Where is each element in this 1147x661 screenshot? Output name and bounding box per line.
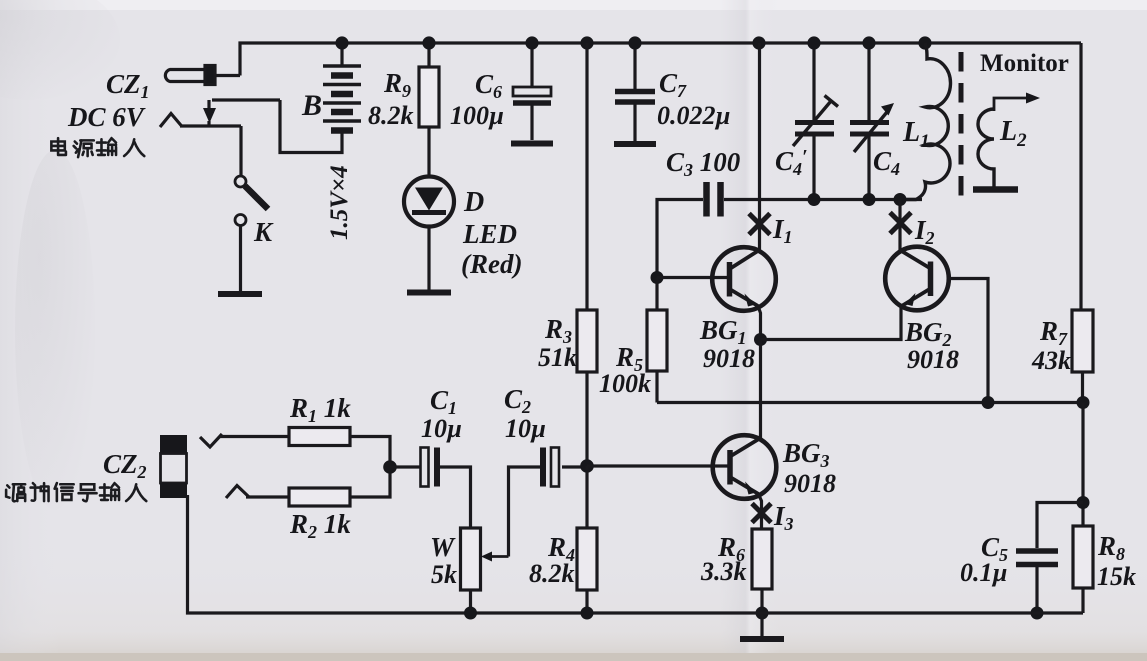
inductor L1: [900, 43, 950, 200]
wire: rail to C6: [530, 43, 533, 87]
junction: mix node: [383, 460, 397, 474]
ground (C6): [511, 141, 553, 147]
label I3: [773, 501, 794, 534]
wire: top supply rail: [240, 43, 1081, 76]
label BG1: [699, 315, 747, 348]
wire: mix node to C1: [390, 465, 420, 468]
wire: base node to BG1 base: [657, 276, 729, 279]
label 10u (C1): [421, 414, 462, 443]
svg-text:1.5V×4: 1.5V×4: [326, 165, 353, 240]
label DC 6V: [67, 102, 146, 132]
svg-text:8.2k: 8.2k: [529, 559, 575, 588]
wire: rail to C7: [633, 43, 636, 89]
label 0.022u: [657, 101, 730, 130]
variable capacitor C4a: [793, 96, 838, 200]
svg-text:15k: 15k: [1097, 562, 1136, 591]
wire: R9 to LED: [427, 127, 430, 177]
label C5: [981, 532, 1008, 565]
wire: base node to R5: [655, 278, 658, 311]
wire: R1 to mix node: [350, 437, 390, 468]
wire: C3 left plate to BG1 base node: [657, 200, 703, 273]
wire: bottom rail to ground: [760, 613, 763, 637]
resistor R5: [647, 310, 667, 371]
connector CZ2 ring contact: [226, 486, 249, 499]
battery B: [280, 43, 361, 153]
wire: rail to C4: [867, 43, 870, 122]
junction: rail at R3 line: [580, 36, 593, 49]
variable capacitor C4: [850, 103, 894, 200]
wire: tip contact to R1: [219, 435, 289, 438]
svg-text:3.3k: 3.3k: [700, 557, 747, 586]
label 调制信号输入 (modulation signal input): [6, 483, 146, 501]
junction: bottom rail at R4: [581, 607, 594, 620]
label 15k: [1097, 562, 1136, 591]
label R7: [1039, 316, 1068, 349]
label C6: [475, 69, 502, 102]
label 1.5V×4: [326, 165, 353, 240]
wire: switch to ground: [239, 226, 242, 293]
svg-text:Monitor: Monitor: [980, 50, 1069, 77]
label 8.2k (R4): [529, 559, 575, 588]
label 9018 (BG3): [784, 469, 836, 498]
wire: R7 to feedback line: [1081, 372, 1084, 403]
wire: BG3 emitter to R6: [759, 494, 762, 529]
wire: right rail from top: [1079, 43, 1082, 310]
svg-text:100µ: 100µ: [450, 101, 504, 130]
resistor R9: [419, 67, 439, 127]
capacitor C5: [1016, 551, 1058, 613]
wire: C2 to node: [562, 465, 587, 468]
junction: bottom rail at R6: [756, 607, 769, 620]
junction: rail at C4: [862, 36, 875, 49]
label K: [253, 217, 274, 247]
wire: node to C5: [1037, 503, 1083, 549]
svg-text:(Red): (Red): [461, 249, 522, 279]
wire: emitter tie line BG1-BG2: [761, 305, 902, 340]
svg-text:10µ: 10µ: [421, 414, 462, 443]
svg-text:R1 1k: R1 1k: [289, 393, 351, 426]
label L1: [902, 117, 930, 152]
wire: jack to switch K: [239, 126, 242, 176]
wire: R5 bottom to feedback line: [655, 371, 658, 403]
ground (L2): [973, 186, 1018, 193]
junction: rail at C6: [525, 36, 538, 49]
wire: R8 to bottom rail: [1081, 588, 1084, 613]
svg-text:LED: LED: [462, 219, 517, 249]
wire: BG2 base to feedback line: [948, 279, 989, 403]
wire: BG1 emitter to tie node: [758, 306, 761, 340]
svg-text:K: K: [253, 217, 274, 247]
junction: emitter tie node: [754, 333, 767, 346]
svg-text:0.1µ: 0.1µ: [960, 558, 1007, 587]
wire: tank to BG2 collector through I2: [898, 200, 901, 252]
svg-text:8.2k: 8.2k: [368, 101, 414, 130]
wire: ring contact to R2: [246, 495, 289, 498]
label R6: [717, 532, 745, 565]
label R5: [615, 342, 643, 375]
junction: rail at R9: [422, 36, 435, 49]
wire: battery negative return to jack contact: [280, 100, 342, 153]
label I1: [772, 214, 793, 247]
wire: rail to C4a: [812, 43, 815, 122]
wire: R6 to bottom rail: [760, 589, 763, 613]
junction: feedback line at R7: [1077, 396, 1090, 409]
wire: R4 to bottom rail: [585, 590, 588, 613]
svg-text:B: B: [301, 89, 322, 122]
label BG2: [904, 317, 952, 350]
svg-text:10µ: 10µ: [505, 414, 546, 443]
transistor BG3: [713, 435, 777, 499]
capacitor C7: [615, 92, 655, 142]
label I2: [914, 215, 935, 248]
antenna coupling dashed line: [959, 52, 964, 204]
resistor R8: [1073, 526, 1093, 588]
wire: rail down through I1 to BG1 collector: [758, 43, 761, 250]
label 9018 (BG1): [703, 344, 755, 373]
capacitor C6 (electrolytic): [513, 87, 551, 140]
svg-text:5k: 5k: [431, 560, 457, 589]
resistor R2: [289, 488, 350, 506]
connector CZ1 plug barrel: [165, 66, 240, 85]
svg-text:9018: 9018: [784, 469, 836, 498]
wire: rail to R9: [427, 43, 430, 67]
current break I1: [749, 214, 770, 235]
label 0.1u: [960, 558, 1007, 587]
wire: W wiper to C2: [509, 467, 541, 557]
wire: bottom rail: [188, 495, 1084, 613]
ground (LED): [407, 290, 451, 296]
connector CZ1 jack centre contact with break switch arrow: [203, 100, 280, 127]
junction: tank line at I2 drop: [894, 193, 907, 206]
resistor R6: [752, 529, 772, 589]
label C1: [430, 385, 457, 418]
wire: W to bottom rail: [469, 590, 472, 613]
label C4a: [775, 146, 808, 179]
label 100k: [599, 369, 651, 398]
junction: C5/R8 node: [1077, 496, 1090, 509]
label BG3: [782, 438, 830, 471]
label (Red): [461, 249, 522, 279]
label R8: [1097, 531, 1125, 564]
resistor R3: [577, 310, 597, 372]
resistor R4: [577, 528, 597, 590]
capacitor C3: [707, 182, 721, 217]
label C4: [873, 146, 900, 179]
inductor L2: [978, 109, 994, 187]
label 51k: [538, 343, 577, 372]
label Monitor: [980, 50, 1069, 77]
junction: feedback line at BG2 base drop: [982, 396, 995, 409]
junction: rail at oscillator collector line: [752, 36, 765, 49]
svg-text:C3 100: C3 100: [666, 147, 741, 180]
label 3.3k: [700, 557, 747, 586]
wire: C1 to W: [440, 467, 471, 528]
wire: tank line: [760, 198, 922, 201]
label 9018 (BG2): [907, 345, 959, 374]
label R4: [547, 532, 575, 565]
label C2: [504, 384, 531, 417]
potentiometer W: [461, 528, 509, 590]
label B: [301, 89, 322, 122]
svg-text:R2 1k: R2 1k: [289, 509, 351, 542]
label 8.2k: [368, 101, 414, 130]
label R2 1k: [289, 509, 351, 542]
switch K: [235, 176, 268, 226]
label D: [463, 187, 484, 218]
label C7: [659, 68, 687, 101]
resistor R7: [1072, 310, 1093, 372]
label R3: [544, 314, 572, 347]
ground (switch K): [218, 291, 262, 297]
junction: C2/R3/R4/BG3 node: [580, 459, 594, 473]
transistor BG1: [712, 247, 776, 311]
label L2: [999, 116, 1027, 151]
label C3 100: [666, 147, 741, 180]
svg-text:100k: 100k: [599, 369, 651, 398]
junction: rail at battery: [335, 36, 348, 49]
wire: LED to ground: [427, 227, 430, 291]
svg-text:51k: 51k: [538, 343, 577, 372]
label W: [430, 532, 456, 562]
label 43k: [1031, 346, 1071, 375]
label R9: [383, 68, 411, 101]
junction: bottom rail at W: [464, 607, 477, 620]
junction: tank line at C4a: [808, 193, 821, 206]
connector CZ2 tip contact: [200, 434, 222, 447]
monitor arrow: [994, 93, 1040, 112]
svg-text:DC 6V: DC 6V: [67, 102, 146, 132]
ground (C7): [614, 141, 656, 147]
connector CZ1 jack sleeve contact: [160, 114, 241, 128]
capacitor C2 (electrolytic): [543, 448, 559, 487]
connector CZ2 socket: [160, 435, 187, 498]
svg-text:W: W: [430, 532, 456, 562]
label CZ1: [106, 69, 150, 102]
junction: rail at C4a: [807, 36, 820, 49]
label 电源输入 (power input): [51, 138, 144, 157]
wire: rail down to R3: [585, 43, 588, 310]
wire: emitter node down to BG3 collector: [759, 340, 762, 439]
wire: R3 to C2 node: [585, 372, 588, 466]
ground (emitter rail): [740, 636, 784, 642]
label 100u: [450, 101, 504, 130]
junction: rail at L1: [918, 36, 931, 49]
label 5k: [431, 560, 457, 589]
svg-text:9018: 9018: [703, 344, 755, 373]
label CZ2: [103, 449, 147, 482]
svg-text:9018: 9018: [907, 345, 959, 374]
junction: bottom rail at C5: [1031, 607, 1044, 620]
capacitor C1 (electrolytic): [421, 448, 438, 487]
label LED: [462, 219, 517, 249]
wire: node to R4: [585, 466, 588, 528]
svg-text:43k: 43k: [1031, 346, 1071, 375]
resistor R1: [289, 428, 350, 446]
wire: R2 to mix node: [350, 467, 390, 497]
wire: C3 right plate to tank line: [724, 198, 760, 201]
junction: rail at C7: [628, 36, 641, 49]
wire: plug tip to rail: [215, 74, 240, 77]
wire: node to BG3 base: [587, 464, 729, 467]
svg-text:D: D: [463, 187, 484, 218]
label R1 1k: [289, 393, 351, 426]
LED D: [404, 177, 454, 227]
transistor BG2: [885, 247, 949, 311]
node: BG1 base junction: [651, 271, 664, 284]
junction: tank line at C4: [863, 193, 876, 206]
wire: right rail down to R8: [1081, 403, 1084, 527]
label 10u (C2): [505, 414, 546, 443]
current break I2: [890, 213, 911, 234]
wire: feedback line R5/BG2 base/R7: [657, 401, 1083, 404]
current break I3: [752, 504, 771, 523]
svg-text:0.022µ: 0.022µ: [657, 101, 730, 130]
